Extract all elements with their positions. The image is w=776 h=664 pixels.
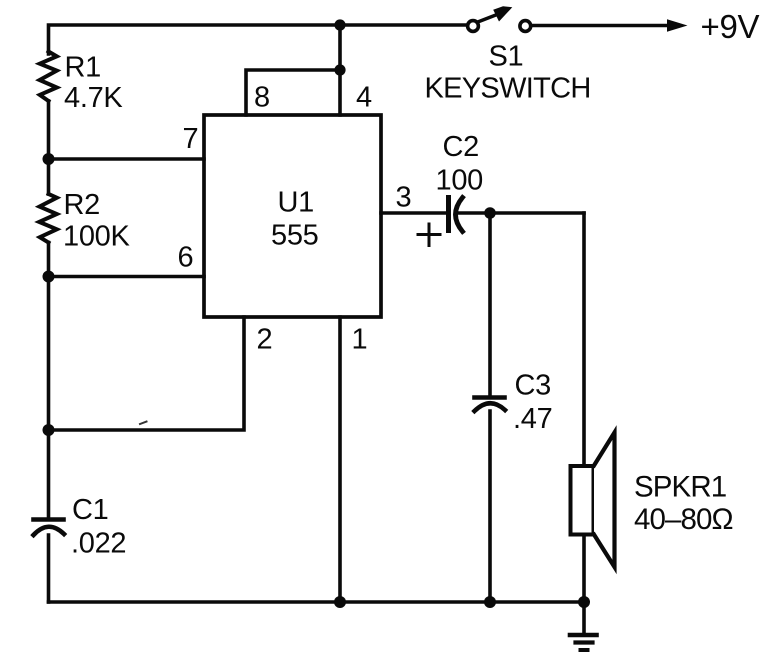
svg-text:C3: C3 [515,370,551,402]
svg-text:R2: R2 [64,189,100,221]
C2 polarity plus [418,224,440,246]
ground bar 3 [581,648,588,652]
capacitor C3 straight plate [475,395,505,400]
capacitor C1 straight plate [34,517,64,522]
+9V arrowhead [667,19,688,31]
wire pin 6 to R2/C1 node [49,275,205,279]
svg-text:KEYSWITCH: KEYSWITCH [425,73,591,105]
ground stub [582,602,586,633]
wire pin 7 to R1/R2 node [49,157,205,161]
wire C2 to speaker branch [459,211,584,215]
svg-text:C1: C1 [72,494,108,526]
wire left rail R2 to C1 [47,243,51,519]
svg-text:7: 7 [183,123,199,155]
wire left rail C1 to bottom [47,535,51,602]
svg-text:3: 3 [396,182,412,214]
node junction dot pin8/pin4 jumper [334,64,345,75]
switch S1 lever [479,13,501,22]
svg-text:.47: .47 [513,403,552,435]
wire bottom rail [49,600,585,604]
resistor R2 zigzag [39,194,57,243]
svg-text:1: 1 [352,324,368,356]
wire speaker branch drop [582,213,586,466]
wire pin 2 to left rail [49,317,245,430]
ground bar 2 [576,640,593,644]
svg-text:100K: 100K [63,221,130,253]
svg-text:4: 4 [356,82,372,114]
wire pin 4 / Vcc drop [338,25,342,115]
node junction dot pin1/bottom rail [334,596,346,608]
node junction dot C3/bottom rail [484,596,496,608]
wire switch to +9V arrow [532,24,671,28]
capacitor C2 straight plate [446,198,451,231]
ground bar 1 [570,633,597,638]
switch S1 pole circle [468,21,479,32]
svg-text:R1: R1 [65,52,101,84]
svg-text:100: 100 [436,165,484,197]
svg-text:SPKR1: SPKR1 [634,471,726,504]
switch S1 throw circle [520,21,531,32]
stray scan speck [140,422,147,425]
svg-text:.022: .022 [71,528,126,560]
node junction dot speaker/ground [578,596,590,608]
wire pin 3 output [381,211,446,215]
speaker SPKR1 body [571,466,594,535]
svg-text:40–80Ω: 40–80Ω [634,503,733,536]
switch S1 lever arrowhead [493,6,512,21]
svg-text:U1: U1 [278,187,314,219]
capacitor C1 curved plate [34,527,65,535]
node junction dot C2 output [484,207,496,219]
node junction dot pin2/left rail [43,424,55,436]
svg-text:6: 6 [178,242,194,274]
svg-text:555: 555 [271,220,319,252]
capacitor C3 curved plate [475,403,506,411]
wire C3 to bottom rail [488,411,492,602]
capacitor C2 curved plate [456,198,463,232]
wire C3 branch drop [488,213,492,396]
wire top rail left segment [49,25,468,54]
node junction dot R2/pin6 [43,271,55,283]
svg-text:S1: S1 [489,41,524,73]
speaker SPKR1 cone [594,433,615,568]
svg-text:+9V: +9V [701,8,760,45]
svg-text:8: 8 [254,82,270,114]
node junction dot top rail / pin4 [334,19,345,30]
wire left rail R1 to R2 [47,101,51,194]
wire pin 1 to ground rail [338,317,342,602]
svg-text:2: 2 [257,324,273,356]
op-amp U1 555 body [204,115,381,317]
wire pin 8 to pin 4 jumper [246,70,340,115]
svg-text:C2: C2 [443,131,479,163]
node junction dot R1/R2 [43,153,55,165]
svg-text:4.7K: 4.7K [64,82,123,114]
wire speaker to ground [582,535,586,603]
resistor R1 zigzag [40,52,57,102]
